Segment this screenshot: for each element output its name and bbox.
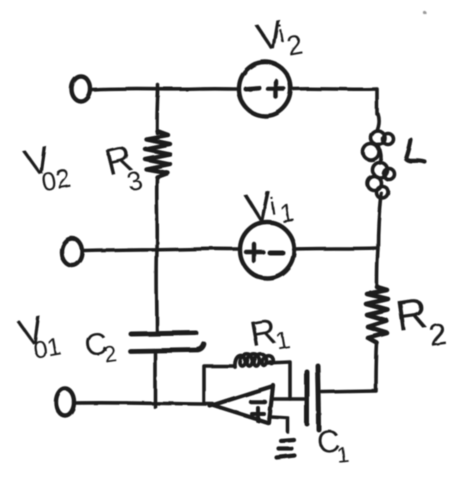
source Vi1: [240, 222, 294, 278]
wire Vi2 to top-right corner: [291, 89, 377, 114]
wire op-amp + input to ground: [271, 417, 288, 432]
capacitor C2 bottom plate: [130, 344, 204, 351]
feedback wire left vertical: [204, 366, 233, 403]
label L: [406, 140, 425, 162]
Vi1 plus: [246, 244, 263, 261]
svg-text:2: 2: [427, 316, 449, 353]
wire middle-left: terminal to Vi1: [84, 249, 239, 251]
op-amp U1: [210, 385, 273, 423]
source Vi2: [239, 62, 291, 116]
inductor L: [363, 114, 395, 198]
svg-text:01: 01: [31, 332, 63, 364]
terminal O (V02, top-left): [72, 77, 91, 102]
svg-text:2: 2: [103, 341, 119, 367]
Vi2 minus: [246, 88, 259, 89]
capacitor C2 top plate: [131, 333, 196, 334]
resistor R1: [235, 354, 273, 367]
wire left rail upper: [157, 92, 158, 133]
Vi1 minus: [270, 251, 283, 256]
ground: [277, 440, 295, 458]
stray dot top-right: [423, 11, 426, 14]
op-amp plus: [252, 408, 264, 421]
wire C1 to op-amp inverting input: [273, 397, 305, 401]
svg-text:2: 2: [285, 29, 305, 61]
wire R2 to corner to C1: [322, 343, 377, 392]
svg-text:02: 02: [39, 162, 73, 197]
capacitor C1 left plate: [305, 372, 310, 424]
wire left rail middle: [155, 177, 159, 332]
wire R1 to inverting node: [267, 362, 290, 399]
svg-text:R: R: [393, 289, 430, 341]
svg-text:3: 3: [124, 164, 145, 197]
resistor R3: [145, 131, 170, 177]
bottom wire: terminal to op-amp output: [75, 403, 213, 404]
svg-text:1: 1: [278, 197, 297, 229]
terminal O (middle-left): [62, 239, 83, 266]
resistor R2: [366, 287, 388, 343]
op-amp minus: [251, 400, 265, 404]
wire right rail: inductor to R2: [377, 193, 381, 287]
wire Vi1 to right rail: [295, 248, 377, 249]
svg-text:1: 1: [274, 327, 292, 356]
capacitor C1 right plate: [318, 366, 319, 430]
svg-text:1: 1: [335, 441, 350, 467]
wire top: terminal to Vi2: [92, 89, 239, 90]
terminal O (V01, bottom-left): [56, 389, 74, 416]
wire junction top rail stub: [156, 85, 160, 96]
Vi2 plus: [268, 81, 284, 97]
wire C2 down branch: [153, 352, 157, 407]
